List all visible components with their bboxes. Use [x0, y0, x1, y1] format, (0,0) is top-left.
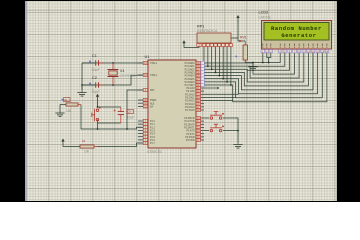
RP1 pin 3 box — [206, 44, 209, 47]
LCD pin 6 — [289, 44, 291, 47]
LCD pin 13 — [321, 44, 323, 47]
wire net ground rail: RV1 bottom, VSS, RS — [245, 53, 280, 63]
svg-text:P1.3: P1.3 — [150, 131, 155, 133]
svg-text:ALE: ALE — [150, 102, 155, 105]
svg-text:10k: 10k — [84, 150, 90, 154]
wire RP1 pin4 pull-up to P0.2 — [211, 47, 213, 70]
svg-text:P3.3/INT1: P3.3/INT1 — [184, 128, 195, 130]
U1 pin P1.3 — [138, 129, 148, 131]
svg-text:P2.7/A15: P2.7/A15 — [185, 109, 195, 112]
LCD pin 9 — [303, 44, 305, 47]
push button BTN3 — [210, 129, 213, 132]
LCD pin 12 — [317, 44, 319, 47]
svg-text:U1: U1 — [145, 55, 150, 59]
svg-text:P2.6/A14: P2.6/A14 — [185, 106, 195, 109]
svg-text:EA: EA — [150, 106, 154, 109]
svg-text:P3.6/WR: P3.6/WR — [185, 137, 195, 139]
svg-text:P2.3/A11: P2.3/A11 — [185, 97, 195, 100]
svg-text:P2.1/A9: P2.1/A9 — [186, 90, 195, 93]
ground symbol G4 (LCD) — [252, 63, 254, 67]
wire P2.4 control line — [204, 100, 233, 102]
wire net P0.5 to LCD D5 — [204, 53, 318, 94]
wire: button2 to P3.0 and right rail — [204, 118, 238, 144]
wire: vcc to R2 — [63, 146, 80, 148]
LCD pin 3 — [270, 44, 272, 47]
svg-text:C2: C2 — [92, 76, 97, 80]
ground symbol G3 (buttons) — [233, 144, 242, 146]
capacitor C2 — [82, 84, 96, 86]
U1 right pins P0 — [196, 62, 204, 64]
wire: RST pin to reset network — [127, 90, 143, 129]
push button BTN1 (reset) — [96, 109, 99, 112]
U1 pin P1.1 — [138, 123, 148, 125]
wire LCD VDD/VEE drop — [267, 53, 271, 63]
svg-text:RST: RST — [150, 90, 155, 92]
power +5V arrow (R2) — [61, 139, 64, 142]
svg-text:RV1: RV1 — [240, 36, 247, 40]
wire: R2 to P1.7 — [97, 143, 143, 147]
resistor R1 — [66, 103, 78, 106]
capacitor C3 (reset) — [120, 107, 122, 111]
svg-text:Generator: Generator — [281, 32, 316, 39]
svg-text:P1.5: P1.5 — [150, 137, 155, 139]
RP1 pin 2 box — [202, 44, 205, 47]
LCD pin 8 — [298, 44, 300, 47]
svg-text:P2.0/A8: P2.0/A8 — [186, 87, 195, 90]
U1 right pins P2 — [196, 87, 204, 89]
crystal X1 — [112, 63, 114, 70]
power +5V arrow (RP1 pin1) — [182, 40, 185, 43]
svg-text:X1: X1 — [120, 69, 125, 73]
wire: gnd branch of C1/C2 — [81, 63, 83, 90]
U1 pin P1.7 — [138, 142, 148, 144]
svg-text:P1.0: P1.0 — [150, 121, 155, 123]
wire RP1 pin5 pull-up to P0.3 — [215, 47, 217, 73]
wire: reset button loop — [98, 107, 121, 129]
svg-text:P1.6: P1.6 — [150, 140, 155, 142]
wire net P0.4 to LCD D4 — [204, 53, 313, 90]
wire LCD VSS to ground rail — [262, 53, 264, 63]
ground symbol G2 (R1) — [59, 105, 61, 114]
wire stub P2.0 junction — [204, 87, 218, 89]
svg-text:P0.1/AD1: P0.1/AD1 — [185, 65, 196, 68]
svg-text:XTAL1: XTAL1 — [150, 62, 158, 65]
svg-text:P1.2: P1.2 — [150, 127, 155, 129]
svg-text:P2.2/A10: P2.2/A10 — [185, 93, 195, 96]
wire RP1 pin8 pull-up to P0.6 — [226, 47, 228, 82]
svg-text:PSEN: PSEN — [150, 100, 157, 102]
svg-text:P0.5/AD5: P0.5/AD5 — [185, 78, 196, 81]
svg-text:P1.4: P1.4 — [150, 134, 155, 136]
svg-text:30pF: 30pF — [92, 68, 101, 72]
power +5V arrow (RP1 common) — [236, 15, 239, 18]
svg-text:P0.0/AD0: P0.0/AD0 — [185, 62, 196, 65]
RP1 pin 9 box — [229, 44, 232, 47]
svg-text:CRYSTAL: CRYSTAL — [120, 74, 136, 78]
svg-text:C1: C1 — [92, 54, 97, 58]
LCD pin 14 — [326, 44, 328, 47]
LCD pin 7 — [294, 44, 296, 47]
svg-text:P1.1: P1.1 — [150, 124, 155, 126]
wire net P0.1 to LCD D1 — [204, 53, 299, 78]
svg-text:P3.1/TXD: P3.1/TXD — [185, 121, 195, 123]
svg-text:LCD2: LCD2 — [259, 10, 269, 14]
svg-text:P3.5/T1: P3.5/T1 — [186, 134, 195, 136]
capacitor C1 — [82, 62, 96, 64]
U1 pin P1.2 — [138, 126, 148, 128]
svg-text:P0.3/AD3: P0.3/AD3 — [185, 72, 196, 75]
push button BTN2 — [210, 117, 213, 120]
svg-text:P0.7/AD7: P0.7/AD7 — [185, 84, 196, 87]
svg-text:P2.5/A13: P2.5/A13 — [185, 103, 195, 106]
svg-text:P1.7: P1.7 — [150, 143, 155, 145]
svg-text:P0.6/AD6: P0.6/AD6 — [185, 81, 196, 84]
wire net P0.7 to LCD D7 — [204, 53, 327, 102]
svg-text:AT89C51: AT89C51 — [147, 150, 162, 154]
RP1 pin 4 box — [210, 44, 213, 47]
wire P2.2 control line — [204, 93, 239, 95]
LCD pin 11 — [312, 44, 314, 47]
svg-text:P2.4/A12: P2.4/A12 — [185, 100, 195, 103]
U1 pin P1.5 — [138, 136, 148, 138]
LCD pin 2 — [266, 44, 268, 47]
wire: crystal top node C1/X1 to XTAL1 — [82, 62, 148, 64]
U1 left pins — [138, 62, 148, 64]
svg-text:P3.4/T0: P3.4/T0 — [186, 131, 195, 133]
wire RP1 pin2 pull-up to P0.0 — [203, 47, 205, 64]
svg-text:10uF: 10uF — [127, 116, 134, 120]
ground symbol G1 (crystal caps) — [81, 85, 83, 93]
wire net LCD RW — [250, 53, 285, 66]
RP1 pin 8 box — [225, 44, 228, 47]
svg-text:10k: 10k — [66, 109, 72, 113]
wire net LCD E — [247, 53, 289, 70]
svg-text:C3: C3 — [128, 111, 132, 114]
LCD pin 1 — [262, 44, 264, 47]
svg-text:P0.2/AD2: P0.2/AD2 — [185, 68, 196, 71]
svg-text:RP1: RP1 — [197, 25, 204, 29]
wire RP1 pin6 pull-up to P0.4 — [218, 47, 220, 76]
power +5V arrow (reset button) — [96, 94, 99, 97]
svg-text:P0.4/AD4: P0.4/AD4 — [185, 75, 196, 78]
U1 pin P1.4 — [138, 133, 148, 135]
wire RP1 pin9 pull-up to P0.7 — [230, 47, 232, 86]
svg-text:30pF: 30pF — [92, 90, 101, 94]
U1 right pins P3 — [196, 117, 204, 119]
svg-text:XTAL2: XTAL2 — [150, 74, 158, 77]
U1 pin P1.6 — [138, 139, 148, 141]
wire: reset node bottom rail to P1.2 — [81, 105, 143, 130]
wire: R1 left lead to ground — [60, 104, 66, 106]
RP1 pin 7 box — [222, 44, 225, 47]
LCD pin 4 — [279, 44, 281, 47]
RP1 pin 5 box — [214, 44, 217, 47]
wire net P0.0 to LCD D0 — [204, 53, 295, 74]
wire RP1 pin1 to +5V arrow — [184, 47, 199, 48]
RP1 pin 6 box — [218, 44, 221, 47]
svg-text:P3.7/RD: P3.7/RD — [186, 140, 195, 142]
svg-text:P3.0/RXD: P3.0/RXD — [184, 118, 195, 120]
U1 pin P1.0 — [138, 120, 148, 122]
resistor R2 — [80, 145, 94, 148]
wire P2.3 control line — [204, 96, 236, 98]
svg-text:P3.2/INT0: P3.2/INT0 — [184, 124, 195, 126]
wire net P0.3 to LCD D3 — [204, 53, 308, 86]
LCD pin 10 — [307, 44, 309, 47]
wire RP1 pin7 pull-up to P0.5 — [222, 47, 224, 79]
wire net P0.6 to LCD D6 — [204, 53, 322, 98]
svg-text:R2: R2 — [82, 140, 86, 143]
wire RP1 pin9/common to RV1 top — [231, 21, 245, 41]
wire net P0.2 to LCD D2 — [204, 53, 304, 82]
wire: button3 to P3.4 and right rail — [204, 130, 238, 132]
wire RP1 pin3 pull-up to P0.1 — [207, 47, 209, 67]
wire: crystal bottom node C2/X1 to XTAL2 — [82, 75, 148, 85]
LCD pin 5 — [284, 44, 286, 47]
svg-text:LM016L: LM016L — [259, 15, 272, 19]
